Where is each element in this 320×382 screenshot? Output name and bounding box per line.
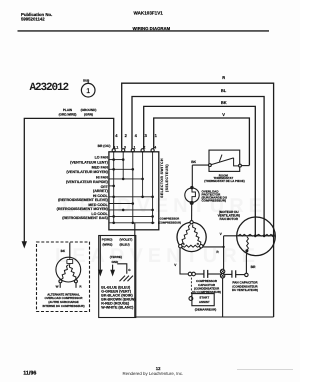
svg-text:4: 4 — [135, 133, 138, 138]
header rule — [18, 30, 270, 32]
svg-text:ASSIST: ASSIST — [199, 300, 210, 304]
wire color legend — [101, 286, 136, 310]
svg-text:FAN MOTOR: FAN MOTOR — [220, 217, 239, 221]
fan winding junction dots — [245, 234, 274, 252]
svg-text:11/96: 11/96 — [23, 371, 36, 377]
node: overload bottom junction — [190, 201, 194, 205]
selector function labels — [57, 156, 109, 220]
room thermostat box — [209, 150, 240, 171]
svg-text:(GRN): (GRN) — [84, 113, 93, 117]
svg-text:5995201142: 5995201142 — [21, 17, 45, 22]
fan motor winding line — [224, 235, 274, 237]
svg-text:4: 4 — [115, 133, 118, 138]
svg-text:V: V — [220, 232, 223, 236]
terminal labels L1 3 1 2 4 — [114, 146, 156, 150]
power line L1 wire — [24, 118, 113, 241]
svg-text:G: G — [128, 268, 131, 272]
svg-text:R: R — [222, 75, 225, 80]
svg-text:1: 1 — [86, 88, 90, 95]
power line arrow — [22, 241, 27, 248]
compressor windings — [181, 225, 201, 248]
wire BK down to overload — [191, 165, 193, 187]
svg-text:START: START — [199, 296, 209, 300]
alternate compressor lead — [69, 243, 71, 259]
wire R from compressor R terminal — [203, 246, 224, 248]
svg-text:(VENTILATEUR RAPIDE): (VENTILATEUR RAPIDE) — [66, 180, 109, 184]
footer faint rule — [237, 369, 293, 371]
legend arrow 2 — [112, 265, 114, 270]
connector pair (plug) — [188, 272, 192, 276]
svg-text:R: R — [79, 285, 82, 289]
start assist dashed wire — [190, 278, 192, 297]
alternate terminals — [59, 280, 62, 283]
wire to compressor capacitor — [195, 273, 203, 275]
legend box — [99, 236, 136, 318]
fan capacitor label — [232, 281, 258, 292]
overload label — [202, 190, 228, 203]
power cord labels — [59, 108, 97, 116]
overload protector U1 — [185, 188, 199, 202]
fan motor vertical winding — [247, 237, 249, 251]
wire color labels R BL BK V — [221, 75, 227, 117]
svg-text:2: 2 — [125, 133, 128, 138]
selector terminal circles — [112, 149, 154, 152]
start assist relay box — [192, 294, 214, 306]
svg-text:V: V — [222, 112, 225, 117]
watermark — [55, 195, 267, 267]
svg-text:BL: BL — [221, 88, 227, 93]
fan motor winding bumps — [238, 234, 273, 236]
internal overload symbol — [67, 258, 73, 265]
alternate compressor label — [42, 292, 84, 307]
svg-text:(THERMOSTAT DE LA PIECE): (THERMOSTAT DE LA PIECE) — [204, 179, 244, 183]
wire R nested loop — [122, 83, 274, 317]
svg-text:1: 1 — [155, 133, 158, 138]
svg-text:Rendered by LeadVenture, Inc.: Rendered by LeadVenture, Inc. — [123, 371, 184, 376]
svg-text:3: 3 — [145, 133, 148, 138]
start assist terminal — [189, 297, 193, 301]
svg-text:A232012: A232012 — [30, 82, 69, 94]
svg-text:HI FAN: HI FAN — [96, 175, 108, 179]
thermostat contact symbol — [211, 155, 238, 166]
svg-text:BK: BK — [221, 100, 227, 105]
compressor motor circle — [177, 222, 206, 251]
svg-text:SELECTOR SWITCH: SELECTOR SWITCH — [160, 158, 164, 198]
svg-text:DU VENTILATEUR): DU VENTILATEUR) — [232, 288, 258, 292]
svg-text:(ARRET): (ARRET) — [93, 189, 109, 193]
selector internal wires — [109, 152, 155, 223]
svg-text:(GROUND): (GROUND) — [81, 108, 97, 112]
svg-text:(REFROIDISSEMENT MOYEN): (REFROIDISSEMENT MOYEN) — [57, 207, 109, 211]
wire BL nested loop — [132, 97, 264, 236]
fan capacitor C2 — [231, 270, 233, 277]
svg-text:INTERNE DU COMPRESSEUR): INTERNE DU COMPRESSEUR) — [42, 304, 84, 308]
compressor label — [158, 217, 181, 224]
alternate terminal stubs — [59, 283, 61, 288]
svg-text:(VENTILATEUR MOYEN): (VENTILATEUR MOYEN) — [66, 170, 108, 174]
svg-text:MED FAN: MED FAN — [92, 165, 109, 169]
fan motor bottom terminal — [245, 273, 248, 276]
selector switch box — [109, 152, 159, 230]
thermostat wires — [192, 164, 208, 166]
svg-text:(WIRE): (WIRE) — [103, 242, 113, 246]
svg-text:DU COMPRESSEUR): DU COMPRESSEUR) — [192, 290, 221, 294]
svg-text:(TERRE): (TERRE) — [110, 255, 122, 259]
bottom rail wire — [135, 316, 274, 318]
legend arrow 1 — [99, 236, 101, 270]
compressor C terminal — [190, 221, 193, 224]
TERRE GND label — [110, 255, 122, 264]
fan motor M1 circle — [237, 217, 276, 256]
wire overload to compressor — [191, 203, 193, 221]
svg-text:BR: BR — [251, 265, 256, 269]
svg-text:COMPRESSOR: COMPRESSOR — [160, 217, 179, 220]
wire V nested loop — [154, 118, 250, 165]
svg-text:WIRING DIAGRAM: WIRING DIAGRAM — [133, 26, 171, 31]
wire to fan capacitor — [225, 273, 232, 275]
sub revision circle — [81, 78, 95, 97]
wire V from compressor S to capacitor row — [180, 248, 188, 274]
wire junction to rail — [222, 278, 224, 317]
crossed connector junction — [220, 269, 224, 278]
compressor capacitor label — [192, 279, 221, 294]
svg-text:(REFROIDISSEMENT BAS): (REFROIDISSEMENT BAS) — [62, 216, 108, 220]
fan coil tail to bottom — [246, 251, 248, 256]
svg-text:SUB: SUB — [83, 78, 90, 82]
svg-text:(ORD.WIRE): (ORD.WIRE) — [59, 113, 77, 117]
svg-text:PLAIN: PLAIN — [63, 108, 73, 112]
svg-text:(VENTILATEUR LENT): (VENTILATEUR LENT) — [70, 160, 108, 164]
wire fan left lead down — [223, 236, 225, 269]
alternate compressor circle — [56, 257, 81, 282]
svg-text:12: 12 — [156, 366, 161, 371]
svg-text:S: S — [183, 242, 185, 246]
wire BR fan motor lead — [245, 255, 247, 273]
svg-text:(DEMARREUR): (DEMARREUR) — [195, 308, 217, 312]
header publication number — [21, 10, 171, 31]
selector to bottom rail wire — [134, 223, 136, 317]
compressor S R terminals — [179, 245, 182, 248]
svg-text:LO FAN: LO FAN — [95, 156, 109, 160]
svg-text:BK: BK — [61, 249, 66, 253]
svg-text:WAK103F1V1: WAK103F1V1 — [134, 10, 164, 15]
fan motor label — [218, 210, 240, 221]
svg-text:(COMPRESSEUR): (COMPRESSEUR) — [158, 221, 181, 224]
svg-text:4: 4 — [154, 146, 156, 150]
svg-text:(VIOLET): (VIOLET) — [120, 238, 133, 242]
selector switch label (vertical) — [160, 158, 169, 198]
svg-text:(BLEU): (BLEU) — [120, 242, 130, 246]
svg-text:BK: BK — [191, 160, 196, 164]
thermostat label — [204, 173, 244, 182]
legend header text — [102, 238, 133, 247]
svg-text:BR (OU): BR (OU) — [98, 144, 111, 148]
svg-text:LEADVENTURE: LEADVENTURE — [55, 245, 260, 267]
svg-text:COMPRESSEUR): COMPRESSEUR) — [202, 199, 227, 203]
alternate windings — [61, 265, 76, 280]
ground wire — [117, 264, 127, 274]
svg-text:(SELECTEUR): (SELECTEUR) — [165, 164, 169, 192]
svg-text:W: W — [56, 285, 59, 289]
alternate compressor box (phantom) — [37, 242, 90, 312]
ground symbol — [120, 276, 134, 282]
svg-text:(REFROIDISSEMENT ELEVE): (REFROIDISSEMENT ELEVE) — [58, 198, 109, 202]
svg-text:W-WHITE (BLANC): W-WHITE (BLANC) — [101, 305, 134, 309]
node: overload top junction — [190, 186, 193, 189]
thermostat terminals — [209, 164, 212, 167]
selector junction dots — [112, 158, 154, 224]
wire number labels above selector — [115, 133, 157, 138]
svg-text:MED COOL: MED COOL — [88, 203, 108, 207]
svg-text:HI COOL: HI COOL — [93, 194, 109, 198]
wire BK nested loop — [144, 106, 256, 235]
compressor capacitor C1 — [203, 270, 205, 278]
svg-text:P(ORD): P(ORD) — [102, 238, 113, 242]
